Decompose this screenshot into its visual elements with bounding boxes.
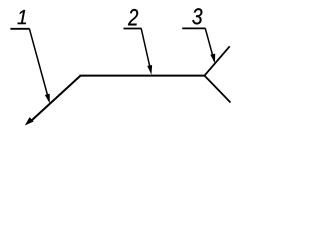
- label 1: [18, 10, 27, 24]
- arrowhead of leader 2: [147, 65, 152, 75]
- label 3: [192, 8, 202, 24]
- leader line 3: [205, 28, 214, 61]
- arrowhead of leader 3: [210, 54, 215, 64]
- leader line 2: [141, 29, 151, 72]
- underline shelf of label 2: [124, 28, 142, 30]
- leader line 1: [29, 29, 49, 101]
- underline shelf of label 1: [10, 28, 29, 30]
- arrowhead of leader 1: [45, 94, 50, 104]
- view-direction arrowhead at contour end: [25, 117, 34, 125]
- underline shelf of label 3: [182, 27, 205, 29]
- contour horizontal segment: [80, 75, 205, 77]
- contour diagonal segment (lower-left): [30, 76, 81, 123]
- contour fork upper-right segment: [205, 46, 230, 75]
- label 2: [128, 9, 138, 25]
- contour fork lower-right segment: [205, 76, 231, 103]
